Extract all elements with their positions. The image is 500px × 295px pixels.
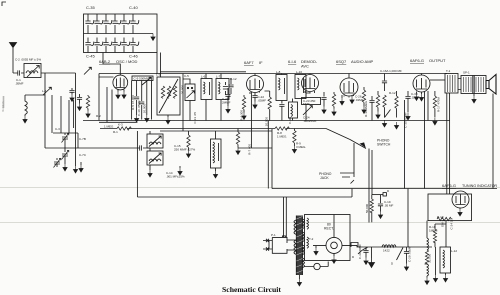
V4 pin wires (344, 95, 354, 98)
V1 pin arrow (122, 90, 126, 99)
capacitor C-30 (405, 91, 410, 120)
svg-text:SP-1: SP-1 (463, 71, 470, 75)
svg-text:L-10: L-10 (296, 70, 302, 74)
ground (V1 cathode) (116, 90, 120, 99)
capacitor C-25 (321, 92, 326, 114)
svg-text:6AB-2: 6AB-2 (99, 59, 111, 64)
svg-text:C-30 40MF: C-30 40MF (358, 244, 362, 259)
capacitor C-29 (404, 247, 409, 271)
tube V6 rectifier (313, 215, 357, 264)
scan fold line upper (0, 187, 500, 189)
tuning gang mid bus (84, 33, 154, 35)
svg-text:JACK: JACK (320, 176, 329, 180)
D leader (358, 248, 368, 255)
svg-text:SWITCH: SWITCH (377, 143, 391, 147)
svg-text:D: D (387, 189, 390, 193)
svg-text:D: D (391, 262, 394, 266)
svg-text:D: D (352, 255, 355, 259)
osc grid bus drop (98, 77, 100, 121)
demod avc wire (238, 147, 272, 149)
resistor R-16 (433, 224, 446, 247)
V5 plate wire (430, 79, 445, 81)
svg-text:IF: IF (259, 60, 263, 65)
connector D (383, 193, 386, 196)
main box bottom (137, 196, 352, 198)
svg-text:K-3: K-3 (118, 123, 123, 127)
resistor R-15 grid2 (394, 91, 398, 129)
wire switch down (369, 149, 372, 223)
trimmer C-7C (62, 150, 69, 160)
loop antenna coil (23, 95, 27, 123)
svg-text:C-3: C-3 (55, 127, 60, 131)
svg-text:R-2: R-2 (96, 114, 101, 118)
osc can L-24 (211, 139, 222, 168)
wire speaker down (492, 94, 494, 189)
svg-text:OM-17: OM-17 (441, 218, 445, 228)
IF can T2 secondary (295, 75, 306, 99)
scan fold line lower (0, 222, 500, 224)
svg-text:R-7 400: R-7 400 (248, 144, 252, 155)
svg-text:1MEG: 1MEG (429, 228, 438, 232)
svg-text:6AF7: 6AF7 (244, 60, 254, 65)
svg-text:R-1: R-1 (113, 130, 118, 134)
trimmer arrow C-9 (142, 77, 151, 85)
pilot coil L-12 (440, 247, 451, 273)
wire jack drop (353, 148, 355, 173)
ground (chassis left) (73, 166, 77, 173)
dial lamp (305, 262, 329, 270)
left rf verticals (45, 77, 74, 148)
svg-text:MMF: MMF (303, 102, 310, 106)
svg-text:C-9B: C-9B (288, 117, 292, 124)
gang to v1 wire (103, 53, 120, 76)
phono jack (340, 173, 354, 184)
capacitor C-13 (279, 101, 284, 121)
tube V5 output (413, 75, 430, 92)
coil L-5 box (147, 151, 163, 165)
fuse F-1 (351, 243, 358, 248)
svg-text:20,000: 20,000 (143, 104, 147, 114)
svg-text:T-1: T-1 (446, 69, 451, 73)
capacitor C-20 (225, 88, 230, 113)
ground (L-5) (148, 170, 152, 177)
speaker (486, 75, 496, 95)
svg-text:1 MEG: 1 MEG (104, 124, 114, 128)
svg-text:R-12: R-12 (389, 91, 396, 95)
secondary tap coils (307, 218, 309, 248)
tube V4 audio amp (340, 78, 358, 96)
wire loop top (25, 94, 45, 96)
grid trimmer arrow (84, 67, 91, 74)
rotated labels (1, 85, 454, 230)
heater bus (357, 245, 432, 247)
svg-text:3 MEG.: 3 MEG. (296, 145, 306, 149)
svg-text:.02MF: .02MF (411, 95, 420, 99)
wire to D (372, 194, 383, 196)
trimmer C-5 box (183, 79, 195, 121)
capacitor C-8 (139, 102, 144, 104)
IF can T2 primary (276, 74, 287, 101)
capacitor C-28 (363, 247, 368, 265)
transformer primary (294, 220, 296, 254)
tuning indicator box (428, 194, 472, 221)
main box right joint (351, 189, 353, 198)
wire osc right (182, 74, 184, 132)
V2 pin wires (250, 74, 422, 95)
V2 grid return (250, 92, 252, 148)
svg-text:C-5: C-5 (184, 74, 189, 78)
svg-text:L-8: L-8 (276, 70, 281, 74)
resistor R-12b (376, 91, 380, 119)
wire x404 (405, 100, 409, 247)
V1 divider wires (132, 81, 152, 120)
V3 pin wires (305, 91, 315, 94)
eye tube feed wires (447, 93, 450, 194)
svg-text:C-13 .05: C-13 .05 (193, 112, 197, 124)
svg-text:6AF6-G: 6AF6-G (442, 183, 456, 188)
svg-text:.05MF: .05MF (15, 82, 24, 86)
corner mark (2, 2, 6, 6)
svg-text:TUNING INDICATOR: TUNING INDICATOR (462, 184, 497, 188)
gang feed wires (157, 53, 161, 78)
coil L-15 (425, 264, 430, 285)
capacitor C-3c (77, 94, 82, 111)
ground (gang frame) (151, 34, 155, 41)
transformer secondary (303, 219, 305, 268)
wire trim join (53, 133, 78, 164)
capacitor C-1 (13, 70, 24, 75)
bus y122 left (99, 121, 137, 123)
trimmer C-3a (43, 87, 51, 95)
resistor R-9 (292, 129, 296, 154)
svg-text:RECT.: RECT. (324, 227, 334, 231)
primary feed wires (284, 197, 287, 237)
svg-text:30,000: 30,000 (181, 85, 185, 95)
resistor R-22 (425, 250, 428, 264)
svg-text:C-45: C-45 (86, 54, 95, 59)
V1 grid wire (99, 74, 114, 78)
ground (heater) (369, 247, 375, 267)
ground (eye cathode) (458, 208, 462, 217)
svg-text:6-I-6: 6-I-6 (288, 59, 297, 64)
V4 pin arrow (350, 96, 354, 104)
audio box left edge (271, 129, 273, 189)
svg-text:C-46: C-46 (129, 54, 138, 59)
svg-text:50,000: 50,000 (365, 203, 369, 213)
svg-text:L-7: L-7 (216, 75, 221, 79)
svg-text:AVC: AVC (301, 64, 309, 69)
bus y128 (100, 128, 326, 130)
main box left edge (136, 131, 138, 197)
wire antenna down (12, 53, 14, 73)
svg-text:250 MMF ±27%: 250 MMF ±27% (174, 148, 195, 152)
phono switch wire (326, 129, 350, 140)
svg-text:C-9 500MMF: C-9 500MMF (134, 77, 152, 81)
OT speaker stubs (458, 79, 486, 90)
IF can L-6 (201, 74, 212, 121)
svg-text:30,000: 30,000 (428, 253, 432, 263)
rectifier box (305, 215, 351, 261)
phono switch (350, 140, 366, 149)
svg-text:C-30 .02MF: C-30 .02MF (404, 112, 408, 128)
resistor R-8 in bus y128 (275, 127, 289, 130)
svg-text:P-1: P-1 (271, 233, 276, 237)
diode pot arrow (303, 93, 312, 121)
ground (V5 pins) (414, 94, 423, 102)
connector D2 (397, 248, 404, 261)
capacitor C-10 (134, 97, 139, 99)
svg-text:.00025MF: .00025MF (303, 119, 317, 123)
svg-text:.05MF: .05MF (258, 98, 267, 102)
V5 screen verticals (425, 91, 429, 189)
IF can L-7 (216, 74, 229, 121)
output transformer (445, 74, 458, 94)
arrow C-14 (178, 166, 182, 175)
box C-23 (302, 98, 321, 105)
tube V2 IF (247, 76, 264, 93)
svg-text:.001 MF±25%: .001 MF±25% (166, 175, 185, 179)
svg-text:OUTPUT: OUTPUT (429, 58, 446, 63)
V5 pin wires (417, 92, 422, 95)
svg-text:C-2 .0055 MF ± 5%: C-2 .0055 MF ± 5% (15, 58, 41, 62)
small value labels (15, 58, 470, 266)
padder resistor (186, 131, 190, 158)
svg-text:.05 MF: .05 MF (384, 203, 394, 207)
svg-text:C-16A 1,000 MF: C-16A 1,000 MF (380, 69, 402, 73)
svg-text:2MMF: 2MMF (222, 100, 231, 104)
svg-text:C-35: C-35 (86, 5, 95, 10)
antenna coil L-1 box (24, 64, 41, 78)
resistor R-1b (86, 95, 90, 118)
svg-text:6SQ7: 6SQ7 (336, 59, 347, 64)
ground (rect filament) (314, 246, 318, 255)
resistor in bus y128 left (117, 127, 131, 130)
resistor R-4b (242, 95, 246, 120)
wire L-1 to chassis (41, 73, 76, 77)
bus y131 (160, 130, 272, 132)
svg-text:AUDIO AMP: AUDIO AMP (351, 59, 374, 64)
v1 pin drops (107, 87, 112, 122)
wire L-24 top (215, 131, 217, 139)
antenna (10, 43, 17, 54)
resistor R-11 (332, 92, 336, 116)
resistor R-17 (433, 91, 437, 125)
chassis corner left (75, 73, 77, 166)
tube V1 osc/mod (113, 75, 128, 90)
svg-text:R-4 300: R-4 300 (240, 110, 244, 121)
eye drop wire (445, 221, 447, 247)
ground (V4 cathode) (340, 95, 344, 105)
switch S2 (427, 221, 429, 250)
coil L-4 box (147, 134, 163, 148)
gang capacitors C-35..C-46 with trimmers (85, 14, 138, 53)
wire L4-L5 (149, 131, 151, 170)
svg-text:C-7C: C-7C (79, 153, 87, 157)
ground (divider b) (145, 115, 149, 122)
resistor R-21 (382, 245, 396, 247)
lower bus right section (272, 188, 497, 190)
wire C-4 line (45, 145, 150, 150)
box C-9 (132, 76, 153, 81)
resistor R-19 (437, 217, 451, 220)
speaker field coil (461, 76, 486, 94)
capacitor C-19 (378, 195, 383, 219)
svg-text:C-40: C-40 (129, 5, 138, 10)
tuning gang box (84, 14, 158, 53)
ground (osc coil) (166, 115, 170, 124)
B+ top bus second line (160, 71, 246, 73)
trimmer C-7D (54, 158, 61, 168)
svg-text:C-10 .05MF: C-10 .05MF (137, 100, 141, 116)
svg-text:T-2: T-2 (309, 237, 314, 241)
svg-text:1422: 1422 (383, 249, 390, 253)
V4 grid resistor (362, 87, 366, 114)
coil L-9 (289, 99, 298, 121)
svg-text:L-3: L-3 (156, 73, 161, 77)
tube V7 tuning eye (452, 191, 469, 208)
capacitor C-3b (69, 88, 74, 102)
power transformer core (296, 216, 302, 276)
AC plug (263, 236, 296, 253)
long vertical x268 (267, 121, 269, 189)
svg-text:L-2: L-2 (42, 89, 47, 93)
ground (trimmers) (63, 164, 67, 171)
wire cluster to C-4 (77, 133, 79, 148)
svg-text:C-29 .05MF: C-29 .05MF (408, 246, 412, 262)
ground (left cluster) (79, 162, 83, 172)
B+ top bus (99, 73, 447, 75)
MADE IN mark (3, 96, 5, 108)
svg-text:C-7B: C-7B (79, 137, 86, 141)
audio coupling caps (369, 96, 374, 121)
resistor R-6 screen (265, 91, 272, 121)
tube V3 demod/avc (302, 75, 319, 92)
AVC mid bus (83, 120, 450, 122)
svg-text:20,000: 20,000 (265, 117, 269, 127)
ground (divider a) (134, 115, 138, 122)
svg-text:L-12: L-12 (451, 249, 457, 253)
resistor R-14 grid (382, 95, 390, 127)
svg-text:MADE IN: MADE IN (1, 101, 5, 112)
ground (speaker) (472, 94, 476, 103)
capacitor C-6 (228, 78, 233, 94)
wire L-24 bottom (213, 168, 217, 178)
V2 cathode cap (252, 93, 257, 109)
svg-text:L-6: L-6 (201, 75, 206, 79)
resistor R-7 (236, 129, 240, 155)
ground (transformer) (297, 275, 301, 286)
svg-text:R-5 47,000: R-5 47,000 (131, 95, 135, 110)
svg-text:R-13 2MEG: R-13 2MEG (364, 100, 368, 117)
svg-text:6AF6-G: 6AF6-G (410, 58, 424, 63)
svg-text:C-12: C-12 (230, 77, 237, 81)
svg-text:R-17 470M: R-17 470M (437, 97, 441, 112)
osc coil box (157, 77, 180, 115)
capacitor C-16A (382, 74, 387, 92)
resistor R-20 (370, 195, 373, 223)
svg-text:Schematic Circuit: Schematic Circuit (222, 285, 281, 294)
svg-text:1 MEG.: 1 MEG. (277, 134, 287, 138)
svg-text:.01MF: .01MF (355, 98, 364, 102)
svg-text:C-24 1/2: C-24 1/2 (450, 218, 454, 230)
trimmer C-7B (62, 133, 69, 143)
svg-text:OSC / MOD: OSC / MOD (116, 59, 137, 64)
ground (L-12) (443, 273, 447, 282)
ground (R-16) (433, 247, 437, 282)
